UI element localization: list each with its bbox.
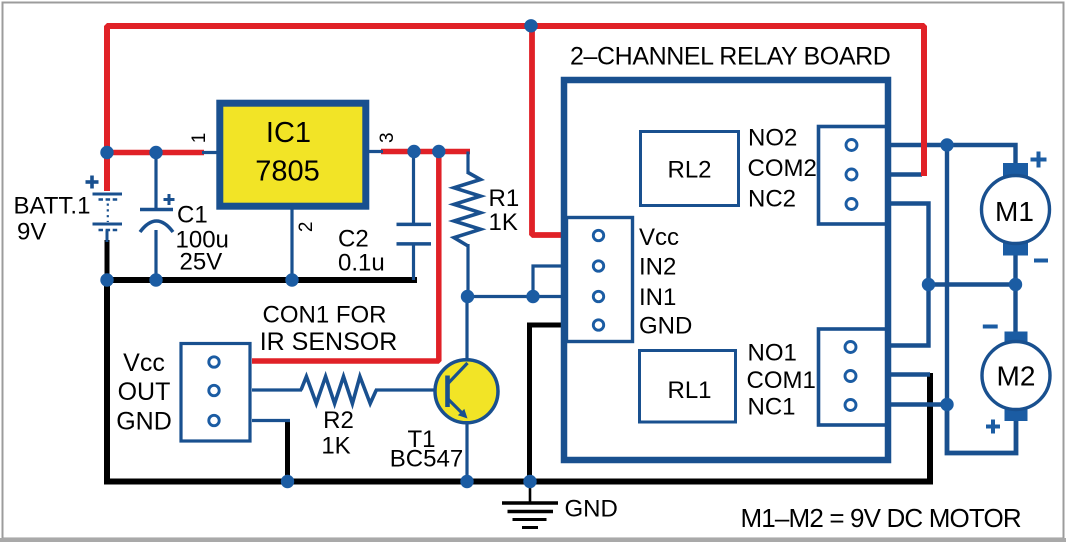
svg-text:Vcc: Vcc: [123, 349, 165, 377]
motor M2: [982, 327, 1050, 434]
wire COM1 stub to black: [887, 372, 930, 376]
wire black CON1 GND drop: [285, 419, 290, 482]
wire R1 top lead: [466, 152, 469, 175]
node top rail junction: [524, 19, 537, 32]
connector terminal block channel1: [819, 329, 889, 425]
wire T1 collector: [465, 297, 468, 362]
svg-text:7805: 7805: [255, 155, 320, 187]
wire COM2 stub to red: [887, 172, 922, 176]
svg-text:GND: GND: [565, 496, 618, 523]
IC U1 regulator IC1 7805: [220, 103, 366, 206]
wire red IC1 pin3 output: [381, 149, 470, 155]
wire IC1 pin1 stub: [202, 151, 219, 154]
svg-text:NC1: NC1: [748, 394, 796, 421]
svg-text:3: 3: [377, 132, 398, 143]
svg-text:Vcc: Vcc: [639, 224, 679, 251]
svg-text:M1: M1: [995, 196, 1034, 227]
node NO2 junction: [940, 138, 953, 151]
wire black relay GND pin drop: [530, 325, 567, 482]
svg-text:M1–M2 = 9V DC MOTOR: M1–M2 = 9V DC MOTOR: [741, 503, 1021, 533]
svg-text:NO1: NO1: [748, 340, 797, 367]
wire branch to IN2: [533, 266, 566, 297]
WIRES-BLACK: [107, 240, 930, 482]
svg-text:IC1: IC1: [266, 117, 311, 149]
node battery minus junction: [100, 273, 113, 286]
svg-text:1K: 1K: [321, 433, 350, 460]
svg-text:BC547: BC547: [390, 446, 463, 473]
node C1 bottom junction: [149, 273, 162, 286]
node C2 top junction: [407, 145, 420, 158]
svg-text:OUT: OUT: [118, 378, 171, 406]
wire M1 minus to M2 minus node: [929, 282, 1016, 286]
node C1 top junction: [149, 146, 162, 159]
transistor Q1 T1: [435, 360, 498, 423]
svg-text:R1: R1: [489, 185, 520, 212]
battery BATT.1: [86, 176, 123, 243]
relay RL1 box: [640, 351, 736, 423]
svg-text:1K: 1K: [489, 209, 518, 236]
wire R2 to T1 base: [375, 388, 448, 391]
wire NO2 node vertical to NC1: [945, 145, 949, 405]
wire red battery+ to IC1 pin1: [105, 150, 205, 156]
node NC1 junction: [940, 398, 953, 411]
wire M2 top lead: [1013, 285, 1017, 335]
wire red drop to CON1 Vcc: [252, 152, 439, 362]
ground symbol: [502, 481, 558, 528]
svg-text:25V: 25V: [180, 249, 223, 276]
svg-text:M2: M2: [997, 361, 1036, 392]
wire black ground rail loop: [107, 280, 930, 482]
svg-text:C2: C2: [338, 226, 369, 253]
wire node to IN1: [468, 295, 567, 298]
svg-text:R2: R2: [323, 407, 354, 434]
node pin2 ground junction: [285, 273, 298, 286]
wire C1 bottom lead: [154, 230, 157, 281]
svg-text:COM2: COM2: [748, 155, 817, 182]
svg-text:9V: 9V: [17, 219, 46, 246]
node NC2 M1 minus junction: [922, 278, 935, 291]
svg-text:RL2: RL2: [667, 157, 711, 184]
wire C2 top lead: [412, 152, 415, 224]
svg-text:IN1: IN1: [639, 284, 676, 311]
svg-text:NO2: NO2: [748, 124, 797, 151]
svg-text:NC2: NC2: [748, 186, 796, 213]
svg-text:CON1 FOR: CON1 FOR: [262, 302, 386, 329]
motor M1: [982, 152, 1050, 261]
connector terminal block channel2: [819, 127, 889, 225]
node 5V output junction: [432, 145, 445, 158]
relay RL2 box: [641, 132, 739, 206]
wire IC1 pin2 to ground rail: [290, 208, 293, 281]
node GND symbol junction: [523, 475, 536, 488]
node collector junction: [461, 290, 474, 303]
svg-text:IR SENSOR: IR SENSOR: [260, 328, 398, 356]
resistor R1: [454, 173, 481, 247]
wire C1 top lead: [154, 153, 157, 209]
wire NC1 to node: [887, 402, 947, 406]
svg-text:C1: C1: [177, 202, 208, 229]
wire NC2 NO1 vertical: [887, 204, 929, 346]
resistor R2: [301, 377, 376, 404]
wire C2 bottom lead: [412, 245, 415, 281]
svg-text:1: 1: [189, 133, 210, 144]
node M1 minus M2 minus junction: [1009, 278, 1022, 291]
wire NC1 node to M2 plus: [947, 405, 1016, 454]
svg-text:2: 2: [296, 222, 317, 233]
relay board outline: [564, 80, 888, 460]
node CON1 ground junction: [281, 475, 294, 488]
wire T1 emitter to ground rail: [465, 420, 468, 482]
connector CON1: [181, 344, 250, 442]
svg-text:IN2: IN2: [639, 254, 676, 281]
svg-text:COM1: COM1: [747, 367, 816, 394]
svg-text:GND: GND: [639, 313, 692, 340]
wire NO2 to M1 plus: [887, 145, 1016, 165]
wire red drop to relay Vcc: [532, 23, 563, 235]
wire black battery negative lead: [105, 240, 110, 282]
node battery plus junction: [100, 146, 113, 159]
svg-text:RL1: RL1: [667, 377, 711, 404]
svg-text:0.1u: 0.1u: [338, 250, 385, 277]
node IN1 IN2 junction: [526, 290, 539, 303]
svg-text:BATT.1: BATT.1: [14, 193, 91, 220]
WIRES-RED: [105, 23, 925, 361]
wire IC1 pin3 stub: [366, 150, 383, 153]
wire red drop over NO2 crossing: [921, 110, 927, 176]
node emitter ground junction: [460, 475, 473, 488]
svg-text:GND: GND: [116, 408, 172, 436]
svg-text:2–CHANNEL RELAY BOARD: 2–CHANNEL RELAY BOARD: [570, 43, 890, 71]
wire M1 bottom lead: [1013, 254, 1017, 287]
wire CON1 OUT to R2: [252, 388, 302, 391]
capacitor C2: [397, 224, 432, 244]
wire R1 bottom lead: [466, 244, 469, 297]
wire red battery+ to top rail to COM2 drop: [107, 26, 924, 191]
WIRES-BLUE: [156, 145, 1016, 482]
wire CON1 GND stub: [252, 419, 290, 422]
connector relay input header: [567, 218, 633, 342]
capacitor C1: [140, 194, 175, 232]
